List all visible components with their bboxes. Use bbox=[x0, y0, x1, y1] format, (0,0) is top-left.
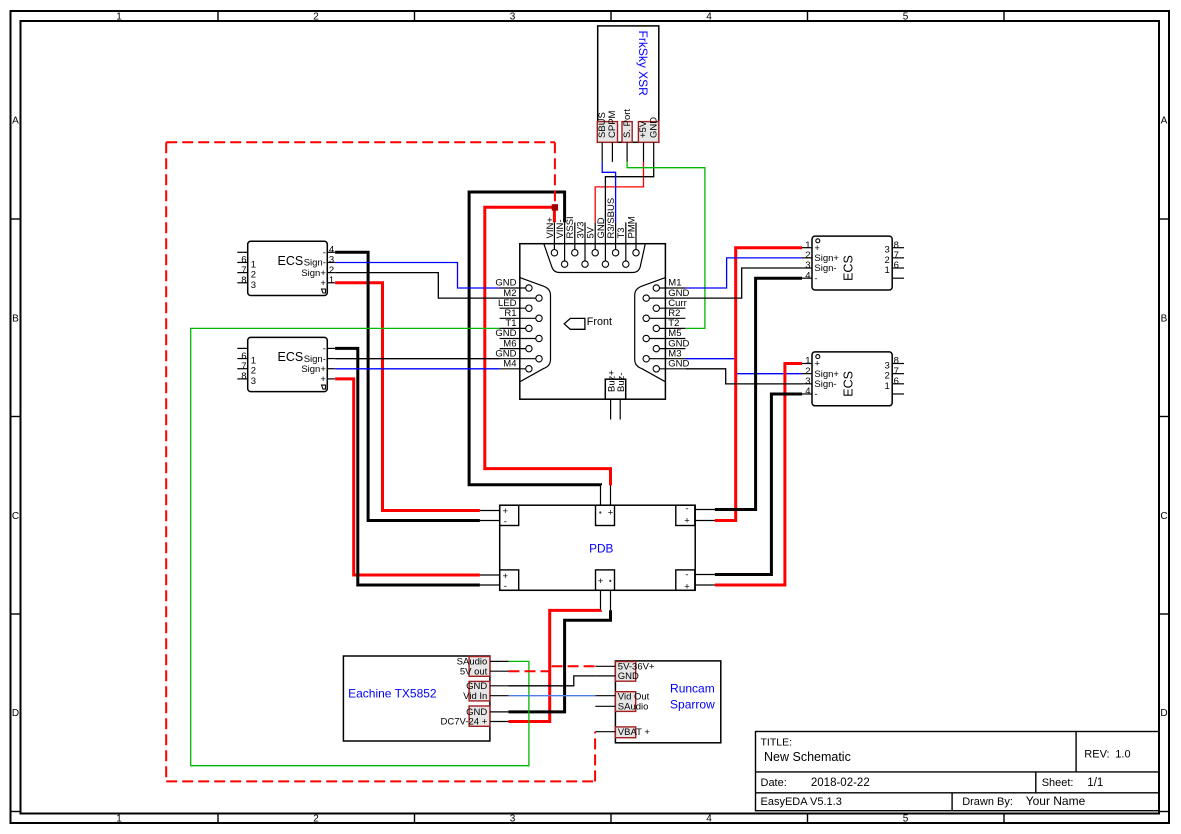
ESC ESC2 (bottom-left) body bbox=[248, 337, 328, 391]
ESC ESC4 (bottom-right) internal pin numbers 3 2 1 bbox=[885, 361, 890, 392]
camera pin stubs bbox=[595, 666, 615, 731]
wire VTX GND to camera GND (black) bbox=[509, 676, 596, 686]
svg-text:PDB: PDB bbox=[589, 541, 613, 555]
PDB pad top-center bbox=[596, 505, 615, 525]
svg-text:+: + bbox=[320, 374, 326, 385]
wire FC M1 to ESC3 Sign+ (blue) bbox=[685, 258, 802, 288]
wire receiver S.Port to FC T2 (green) bbox=[627, 162, 705, 329]
flight controller Front arrow bbox=[564, 318, 585, 329]
PDB pad lower-left bbox=[500, 570, 519, 590]
wire ESC3 plus from PDB upper-right (thick red) bbox=[715, 248, 802, 521]
ESC ESC1 (top-left) left pin stubs bbox=[237, 252, 247, 282]
ESC ESC3 (top-right) right pin numbers 8 7 6 bbox=[894, 240, 899, 271]
svg-text:-: - bbox=[685, 570, 688, 581]
svg-text:3: 3 bbox=[251, 280, 256, 291]
wire FC GND9 to ESC4 Sign- (black) bbox=[685, 369, 802, 384]
svg-text:Sign-: Sign- bbox=[814, 263, 836, 274]
svg-text:5V out: 5V out bbox=[460, 666, 488, 677]
svg-text:DC7V-24 +: DC7V-24 + bbox=[441, 717, 488, 728]
receiver pin GND stub bbox=[653, 142, 655, 162]
wire ESC1 Sign- to FC GND (blue) bbox=[335, 263, 500, 289]
svg-text:C: C bbox=[1160, 511, 1167, 522]
svg-text:C: C bbox=[12, 511, 19, 522]
svg-text:1/1: 1/1 bbox=[1087, 777, 1103, 789]
dashed wire VTX 5Vout to camera 5V-36V+ bbox=[509, 666, 596, 671]
svg-text:FrkSky XSR: FrkSky XSR bbox=[636, 31, 650, 97]
svg-text:+: + bbox=[608, 507, 614, 518]
svg-text:ECS: ECS bbox=[278, 350, 304, 364]
ESC ESC3 (top-right) right pin stubs bbox=[892, 248, 904, 278]
svg-text:VBAT +: VBAT + bbox=[618, 727, 651, 738]
ESC ESC4 (bottom-right) left pin stubs bbox=[802, 364, 812, 394]
ESC ESC4 (bottom-right) corner marker bbox=[816, 355, 820, 359]
ESC ESC1 (top-left) internal pin numbers 1 2 3 bbox=[251, 259, 256, 290]
svg-text:B: B bbox=[1161, 314, 1168, 325]
flight controller left connector pads bbox=[526, 285, 543, 372]
dashed battery net top edge bbox=[166, 141, 555, 143]
ESC ESC2 (bottom-left) left pin stubs bbox=[237, 348, 247, 378]
ESC ESC4 (bottom-right) left pin numbers 1 2 3 4 bbox=[805, 356, 810, 397]
VTX pin box GND/VidIn bbox=[469, 681, 490, 701]
column ticks bottom bbox=[218, 814, 1004, 824]
ESC ESC1 (top-left) right pin numbers 4 3 2 1 bbox=[329, 245, 334, 286]
PDB body bbox=[500, 505, 696, 590]
ESC ESC3 (top-right) body bbox=[812, 236, 892, 290]
svg-text:4: 4 bbox=[706, 11, 712, 22]
receiver pin CPPM stub bbox=[611, 142, 613, 162]
svg-text:3: 3 bbox=[510, 814, 516, 825]
wire ESC2 minus to PDB lower-left (thick black) bbox=[335, 348, 480, 585]
receiver pin S.Port stub bbox=[626, 142, 628, 162]
wire battery plus VIN+ to PDB top-center (thick red) bbox=[485, 207, 611, 485]
ESC ESC2 (bottom-left) internal pin names bbox=[301, 344, 326, 385]
svg-text:New Schematic: New Schematic bbox=[764, 750, 851, 764]
svg-text:GND: GND bbox=[618, 671, 639, 682]
svg-text:ECS: ECS bbox=[842, 371, 856, 397]
dashed battery net left edge bbox=[165, 142, 167, 781]
row letters left bbox=[12, 116, 19, 720]
svg-text:3: 3 bbox=[251, 376, 256, 387]
svg-text:-: - bbox=[814, 273, 817, 284]
wire ESC1 Sign+ to FC M2 (black) bbox=[335, 273, 500, 299]
ESC ESC3 (top-right) left pin numbers 1 2 3 4 bbox=[805, 240, 810, 281]
receiver pin +5V stub bbox=[643, 142, 645, 162]
ESC ESC4 (bottom-right) body bbox=[812, 352, 892, 406]
svg-text:Eachine TX5852: Eachine TX5852 bbox=[348, 687, 437, 701]
wire ESC2 Sign- to FC GND8 (black) bbox=[335, 358, 500, 360]
wire ESC2 plus to PDB lower-left (thick red) bbox=[335, 379, 480, 575]
VTX pin box SAudio/5Vout bbox=[469, 657, 490, 677]
PDB pad top-center marks bbox=[599, 507, 614, 518]
PDB pad stubs upper-right bbox=[695, 510, 715, 521]
camera Runcam Sparrow body bbox=[615, 661, 720, 743]
column numbers top bbox=[116, 11, 909, 22]
svg-text:D: D bbox=[1160, 708, 1167, 719]
ESC ESC3 (top-right) corner marker bbox=[816, 239, 820, 243]
wire receiver SBUS to FC R3/SBUS (blue) bbox=[602, 162, 615, 223]
ESC ESC1 (top-left) body bbox=[248, 241, 328, 295]
wire FC GND2 to ESC3 Sign- (black) bbox=[685, 268, 802, 298]
ESC ESC2 (bottom-left) corner marker bbox=[322, 385, 326, 389]
flight controller right connector outline bbox=[635, 278, 666, 382]
svg-text:5: 5 bbox=[903, 11, 909, 22]
svg-text:A: A bbox=[12, 116, 19, 127]
svg-text:S. Port: S. Port bbox=[622, 109, 633, 138]
VTX pin stubs bbox=[490, 661, 509, 721]
svg-text:SAudio: SAudio bbox=[618, 702, 649, 713]
svg-text:Vid In: Vid In bbox=[463, 691, 487, 702]
PDB pad lower-right bbox=[676, 570, 695, 590]
wire ESC1 minus to PDB upper-left (thick black) bbox=[335, 252, 480, 520]
ESC ESC1 (top-left) right pin stubs bbox=[327, 252, 335, 282]
svg-text:5: 5 bbox=[903, 814, 909, 825]
svg-text:A: A bbox=[1161, 116, 1168, 127]
receiver pin box +5V/GND bbox=[638, 122, 658, 143]
ESC ESC3 (top-right) internal pin names bbox=[814, 243, 839, 284]
junction dot at VIN+ bbox=[552, 204, 558, 210]
VTX Eachine TX5852 body bbox=[343, 656, 490, 741]
flight controller right pin stubs bbox=[649, 288, 685, 369]
svg-text:PMM: PMM bbox=[626, 216, 637, 238]
PDB pad stubs lower-right bbox=[695, 575, 715, 586]
svg-text:4: 4 bbox=[805, 386, 810, 397]
PDB pad upper-right marks bbox=[684, 504, 690, 527]
svg-text:-: - bbox=[814, 389, 817, 400]
wire ESC2 Sign+ to FC M4 (blue) bbox=[335, 368, 500, 370]
camera pin box VidOut/SAudio bbox=[615, 692, 635, 712]
svg-text:6: 6 bbox=[894, 260, 899, 271]
svg-text:1: 1 bbox=[885, 265, 890, 276]
svg-text:2018-02-22: 2018-02-22 bbox=[811, 777, 870, 789]
title block text REV 1.0 bbox=[1084, 748, 1130, 760]
svg-text:TITLE:: TITLE: bbox=[761, 736, 793, 748]
svg-text:+: + bbox=[598, 576, 604, 587]
svg-text:Buz-: Buz- bbox=[616, 372, 627, 392]
svg-text:GND: GND bbox=[648, 117, 659, 138]
svg-text:-: - bbox=[504, 581, 507, 592]
buzzer pin Buz+ stub bbox=[610, 399, 612, 419]
svg-text:-: - bbox=[504, 516, 507, 527]
ESC ESC1 (top-left) internal pin names bbox=[301, 248, 326, 289]
svg-text:Sign-: Sign- bbox=[814, 379, 836, 390]
svg-text:REV:: REV: bbox=[1084, 748, 1109, 760]
wire PDB bottom-center minus to VTX GND (thick black) bbox=[509, 610, 611, 712]
camera pin box VBAT bbox=[615, 727, 635, 738]
svg-text:D: D bbox=[12, 708, 19, 719]
PDB pad bottom-center bbox=[596, 570, 615, 590]
wire VTX Vid In to camera Vid Out (light blue) bbox=[509, 695, 596, 697]
wire ESC4 minus from PDB lower-right (thick black) bbox=[715, 394, 802, 575]
svg-text:+: + bbox=[684, 581, 690, 592]
svg-text:1: 1 bbox=[116, 11, 122, 22]
svg-text:1.0: 1.0 bbox=[1115, 748, 1130, 760]
dashed battery net right drop to VIN+ junction bbox=[554, 142, 556, 206]
column ticks top bbox=[218, 11, 1004, 21]
flight controller body bbox=[520, 244, 666, 400]
PDB pad upper-right bbox=[676, 505, 695, 525]
svg-text:-: - bbox=[685, 504, 688, 515]
PDB pad upper-left bbox=[500, 505, 519, 525]
svg-text:Your Name: Your Name bbox=[1026, 794, 1086, 808]
wire PDB bottom-center plus to VTX DC7V (thick red) bbox=[509, 610, 601, 721]
PDB pad stubs top-center bbox=[601, 485, 611, 505]
ESC ESC1 (top-left) corner marker bbox=[322, 289, 326, 293]
flight controller left connector outline bbox=[520, 278, 551, 382]
wire battery minus VIN- to PDB top-center (thick black) bbox=[469, 192, 600, 485]
svg-text:EasyEDA V5.1.3: EasyEDA V5.1.3 bbox=[761, 796, 842, 808]
svg-text:1: 1 bbox=[329, 275, 334, 286]
ESC ESC2 (bottom-left) right pin stubs bbox=[327, 348, 335, 378]
flight controller top connector pads bbox=[551, 250, 639, 268]
row ticks right bbox=[1159, 219, 1169, 812]
title block text Sheet bbox=[1042, 777, 1104, 789]
ESC ESC4 (bottom-right) right pin stubs bbox=[892, 364, 904, 394]
svg-text:Date:: Date: bbox=[761, 777, 787, 789]
PDB pad stubs lower-left bbox=[480, 575, 500, 585]
PDB pad stubs bottom-center bbox=[601, 590, 611, 610]
svg-text:Sheet:: Sheet: bbox=[1042, 777, 1074, 789]
buzzer pin Buz- stub bbox=[619, 399, 621, 419]
title block text Drawn By bbox=[962, 794, 1085, 808]
svg-text:Runcam: Runcam bbox=[670, 682, 715, 696]
svg-text:+: + bbox=[684, 516, 690, 527]
ESC ESC3 (top-right) left pin stubs bbox=[802, 248, 812, 278]
svg-text:4: 4 bbox=[805, 270, 810, 281]
wire ESC4 plus from PDB lower-right (thick red) bbox=[715, 364, 802, 586]
ESC ESC2 (bottom-left) internal pin numbers 1 2 3 bbox=[251, 356, 256, 387]
svg-text:M4: M4 bbox=[503, 359, 516, 370]
svg-text:3: 3 bbox=[510, 11, 516, 22]
svg-text:Front: Front bbox=[587, 316, 612, 328]
svg-text:8: 8 bbox=[241, 275, 246, 286]
svg-text:ECS: ECS bbox=[278, 254, 304, 268]
PDB pad bottom-center marks bbox=[598, 576, 612, 587]
row letters right bbox=[1160, 116, 1167, 720]
row ticks left bbox=[11, 219, 21, 812]
receiver pin SBUS stub bbox=[601, 142, 603, 162]
svg-text:2: 2 bbox=[313, 814, 319, 825]
ESC ESC1 (top-left) left pin numbers 6 7 8 bbox=[241, 255, 246, 286]
svg-text:8: 8 bbox=[241, 371, 246, 382]
dashed battery net rise to camera VBAT bbox=[594, 732, 596, 782]
PDB pad upper-left marks bbox=[503, 506, 509, 527]
flight controller buzzer pin box bbox=[605, 379, 625, 399]
svg-text:1: 1 bbox=[885, 381, 890, 392]
dashed battery net bottom edge bbox=[166, 780, 595, 782]
wire ESC3 minus from PDB upper-right (thick black) bbox=[715, 278, 802, 509]
svg-text:6: 6 bbox=[894, 376, 899, 387]
flight controller top pin stubs bbox=[554, 222, 636, 261]
flight controller left pin labels bbox=[495, 278, 516, 370]
title block text Date bbox=[761, 777, 870, 789]
wire FC T1 to VTX SAudio (green) bbox=[191, 328, 529, 765]
flight controller right connector pads bbox=[643, 285, 660, 372]
svg-text:+: + bbox=[320, 278, 326, 289]
svg-text:ECS: ECS bbox=[842, 255, 856, 281]
wire ESC1 plus to PDB upper-left (thick red) bbox=[335, 283, 480, 511]
svg-text:B: B bbox=[12, 314, 19, 325]
flight controller top pin labels bbox=[545, 198, 638, 239]
svg-text:Drawn By:: Drawn By: bbox=[962, 796, 1013, 808]
VTX pin box GND/DC7V bbox=[469, 706, 490, 726]
wire receiver +5V to FC 5V (red) bbox=[595, 162, 643, 223]
receiver FrkSky XSR body bbox=[598, 26, 659, 142]
svg-text:GND: GND bbox=[668, 359, 689, 370]
PDB pad lower-left marks bbox=[503, 571, 509, 592]
PDB pad stubs upper-left bbox=[480, 511, 500, 521]
svg-text:1: 1 bbox=[116, 814, 122, 825]
svg-text:2: 2 bbox=[313, 11, 319, 22]
svg-text:Sparrow: Sparrow bbox=[670, 698, 715, 712]
ESC ESC2 (bottom-left) left pin numbers 6 7 8 bbox=[241, 351, 246, 382]
column numbers bottom bbox=[116, 814, 909, 825]
title block frame bbox=[756, 732, 1160, 811]
flight controller top connector outline bbox=[544, 244, 646, 273]
wire receiver GND to FC GND (black) bbox=[605, 162, 653, 223]
svg-text:CPPM: CPPM bbox=[607, 110, 618, 138]
ESC ESC3 (top-right) internal pin numbers 3 2 1 bbox=[885, 245, 890, 276]
ESC ESC4 (bottom-right) right pin numbers 8 7 6 bbox=[894, 356, 899, 387]
PDB pad lower-right marks bbox=[684, 570, 690, 593]
svg-text:4: 4 bbox=[706, 814, 712, 825]
wire FC M3 to ESC4 Sign+ (blue, runs under red) bbox=[685, 359, 802, 374]
camera pin box 5V-36V+/GND bbox=[615, 662, 635, 682]
receiver pin box SBUS/CPPM bbox=[597, 122, 617, 143]
flight controller left pin stubs bbox=[500, 288, 536, 369]
ESC ESC4 (bottom-right) internal pin names bbox=[814, 359, 839, 400]
receiver pin box S.Port bbox=[622, 122, 632, 143]
flight controller right pin labels bbox=[668, 278, 689, 370]
